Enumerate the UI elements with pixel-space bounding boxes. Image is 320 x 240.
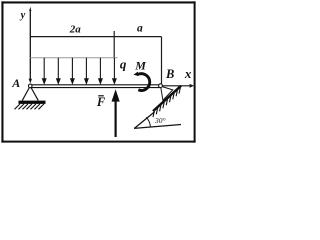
svg-text:30°: 30° (154, 116, 166, 125)
pin A (28, 84, 32, 88)
label F bar (98, 95, 104, 96)
ground bar A (19, 101, 46, 104)
svg-text:F: F (96, 95, 106, 109)
distributed load arrow 6 (99, 58, 102, 84)
force F arrow (114, 100, 116, 137)
distributed load arrow 7 (113, 58, 116, 84)
y axis (29, 10, 31, 82)
dimension line (30, 36, 161, 38)
distributed load arrow 2 (43, 58, 46, 84)
support B triangle (161, 86, 173, 100)
incline surface upper segment (153, 86, 181, 111)
svg-text:x: x (184, 66, 192, 81)
svg-text:B: B (165, 67, 174, 81)
incline hatching (153, 86, 181, 117)
svg-text:2a: 2a (69, 23, 82, 35)
svg-text:a: a (137, 23, 143, 35)
border frame (1, 1, 195, 142)
incline surface lower segment (135, 112, 155, 128)
svg-text:y: y (19, 10, 26, 21)
support A triangle (22, 86, 38, 100)
pin B (159, 84, 163, 88)
dimension tick mid (113, 31, 115, 59)
moment arrowhead (134, 72, 139, 77)
distributed load arrow 5 (85, 58, 88, 84)
ground hatching A (15, 104, 45, 109)
distributed load arrow 3 (57, 58, 60, 84)
angle arc 30 (146, 117, 150, 127)
svg-text:A: A (11, 76, 20, 90)
ground base line at B (134, 125, 181, 129)
x axis (163, 85, 191, 87)
svg-text:q: q (120, 56, 127, 71)
beam (30, 85, 160, 88)
distributed load top line (30, 57, 117, 59)
dimension tick B (161, 37, 163, 84)
distributed load arrow 1 (on y axis) (29, 79, 32, 84)
svg-text:M: M (134, 58, 146, 72)
moment M arc (138, 74, 150, 91)
distributed load arrow 4 (71, 58, 74, 84)
